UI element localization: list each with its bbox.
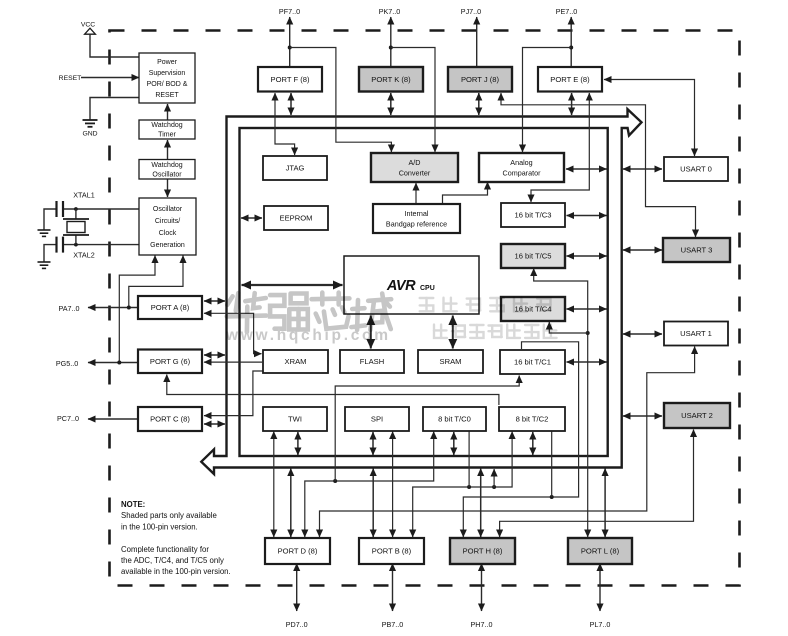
- svg-text:www.hqchip.com: www.hqchip.com: [225, 327, 388, 344]
